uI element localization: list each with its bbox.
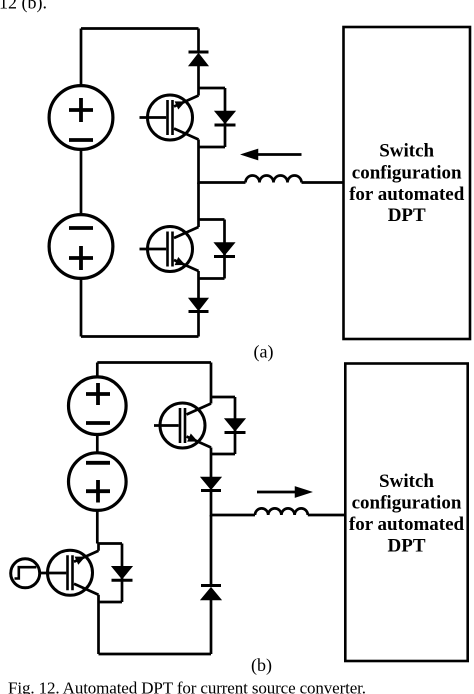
wire: left rail top segment (a) bbox=[80, 29, 83, 87]
svg-text:12 (b).: 12 (b). bbox=[0, 0, 47, 14]
wire: top rail (a) bbox=[81, 27, 199, 30]
wire: Q4 branch right vertical bbox=[121, 544, 124, 603]
gate pulse source VG bbox=[11, 559, 40, 588]
diode D8 (antiparallel with Q4, pointing down) bbox=[112, 567, 133, 581]
label: box text (b) bbox=[349, 471, 465, 557]
wire: leg between mid node and Q2 (a) bbox=[197, 183, 200, 220]
voltage source V3 (plus top, minus bottom) bbox=[69, 377, 127, 435]
current direction arrow (a, pointing left) bbox=[243, 150, 302, 160]
wire: left rail between V4 and Q4 bbox=[96, 510, 99, 544]
inductor L2 bbox=[255, 508, 308, 515]
wire: inductor to box (a) bbox=[302, 181, 345, 184]
wire: gate lead VG to Q4 bbox=[40, 572, 67, 575]
wire: leg between mid node and D6 bbox=[210, 515, 213, 586]
svg-text:(a): (a) bbox=[254, 342, 274, 363]
wire: leg between D3 and bottom rail (a) bbox=[197, 312, 200, 337]
wire: right leg top segment (a) bbox=[197, 29, 200, 53]
svg-text:configuration: configuration bbox=[352, 493, 462, 514]
wire: leg between D1 and Q1 bbox=[197, 66, 200, 89]
wire: mid node to inductor (a) bbox=[199, 181, 246, 184]
diode D7 (antiparallel with Q3, pointing down) bbox=[225, 419, 246, 433]
voltage source V4 (minus top, plus bottom) bbox=[69, 453, 127, 511]
wire: Q2 branch right vertical bbox=[223, 220, 226, 279]
wire: Q1 branch bottom bbox=[199, 146, 226, 149]
box: switch configuration (b) bbox=[345, 364, 467, 662]
svg-text:for automated: for automated bbox=[349, 184, 465, 205]
wire: Q1 branch right vertical bbox=[224, 88, 227, 147]
wire: leg between D6 and bottom rail (b) bbox=[210, 600, 213, 655]
svg-text:Switch: Switch bbox=[379, 141, 434, 162]
svg-text:configuration: configuration bbox=[352, 162, 462, 183]
wire: Q1 branch top bbox=[199, 87, 226, 90]
diode D5 (series, pointing down) bbox=[201, 478, 221, 491]
diode D6 (series, pointing up) bbox=[201, 586, 221, 600]
inductor L1 bbox=[246, 176, 302, 183]
wire: Q2 branch top bbox=[199, 218, 225, 221]
wire: Q3 branch bottom bbox=[211, 453, 235, 456]
wire: leg between Q2 and D3 bbox=[197, 279, 200, 299]
svg-text:(b): (b) bbox=[251, 655, 272, 676]
current direction arrow (b, pointing right) bbox=[257, 487, 311, 497]
wire: Q2 branch bottom bbox=[199, 277, 225, 280]
voltage source V2 (minus top, plus bottom) bbox=[49, 215, 113, 279]
wire: top rail (b) bbox=[97, 361, 211, 364]
svg-text:Switch: Switch bbox=[379, 471, 434, 492]
transistor Q4 (IGBT, arrow on upper lead) bbox=[48, 544, 99, 603]
wire: right leg top segment (b) bbox=[210, 363, 213, 398]
wire: bottom rail (b) bbox=[99, 653, 212, 656]
wire: Q4 branch bottom bbox=[99, 601, 123, 604]
svg-text:for automated: for automated bbox=[349, 514, 465, 535]
box: switch configuration (a) bbox=[344, 27, 471, 339]
wire: bottom rail (a) bbox=[81, 335, 199, 338]
wire: mid node to inductor (b) bbox=[211, 514, 255, 517]
wire: between V3 and V4 bbox=[96, 434, 99, 454]
wire: Q3 branch top bbox=[211, 396, 235, 399]
wire: inductor to box (b) bbox=[308, 514, 346, 517]
wire: between V1 and V2 bbox=[80, 149, 83, 215]
transistor Q2 (IGBT, arrow on lower lead) bbox=[140, 220, 199, 279]
svg-text:DPT: DPT bbox=[388, 536, 426, 557]
svg-text:DPT: DPT bbox=[388, 205, 426, 226]
diode D2 (antiparallel with Q1, pointing down) bbox=[215, 112, 236, 126]
wire: leg between Q3 and D5 bbox=[210, 454, 213, 478]
label: box text (a) bbox=[349, 141, 465, 227]
wire: Q3 branch right vertical bbox=[234, 397, 237, 454]
voltage source V1 (plus top, minus bottom) bbox=[49, 86, 113, 150]
transistor Q1 (IGBT, arrow on upper lead) bbox=[140, 88, 199, 147]
transistor Q3 (IGBT, arrow on lower lead) bbox=[154, 397, 211, 454]
wire: Q4 branch top bbox=[99, 542, 123, 545]
diode D4 (antiparallel with Q2, pointing down) bbox=[214, 243, 235, 257]
wire: left rail Q4 to bottom rail (b) bbox=[97, 602, 100, 654]
svg-text:Fig. 12. Automated DPT for cu: Fig. 12. Automated DPT for current sourc… bbox=[8, 679, 366, 694]
wire: leg between Q1 and mid node (a) bbox=[197, 147, 200, 184]
wire: leg between D5 and mid node (b) bbox=[210, 491, 213, 517]
diode D1 (series, pointing up) bbox=[189, 52, 209, 66]
diode D3 (series, pointing down) bbox=[189, 299, 209, 312]
wire: left rail bottom segment (a) bbox=[80, 278, 83, 337]
wire: left rail to V3 bbox=[96, 363, 99, 378]
